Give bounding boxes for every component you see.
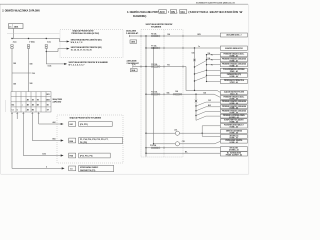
svg-text:ZAPALNICZKA (C5): ZAPALNICZKA (C5)	[227, 73, 242, 76]
svg-text:B/W: B/W	[198, 34, 202, 36]
switch A tap 2	[194, 73, 195, 74]
switch B tap 2	[195, 110, 196, 111]
svg-text:IG2: IG2	[12, 105, 15, 107]
svg-text:P1, P14, P16, P15, P12, P10, P: P1, P14, P16, P15, P12, P10, P7,	[80, 138, 109, 141]
wire to connector B04	[32, 140, 61, 142]
svg-text:2A04: 2A04	[14, 25, 19, 28]
row4 pin tick a	[163, 93, 165, 95]
second vertical bus	[153, 48, 155, 144]
svg-text:WIĄZKA PRZEWODÓW W KABINIE: WIĄZKA PRZEWODÓW W KABINIE	[70, 116, 102, 119]
svg-text:1C06: 1C06	[48, 66, 52, 68]
splice rail A	[206, 55, 208, 82]
node row2	[145, 47, 146, 48]
svg-text:10, 14, 15, 17, 19, 18, 20: 10, 14, 15, 17, 19, 18, 20	[71, 49, 92, 52]
svg-text:2. OBWÓD WŁĄCZNIKA ZAPŁONU: 2. OBWÓD WŁĄCZNIKA ZAPŁONU	[2, 9, 40, 12]
node row8	[145, 153, 146, 154]
svg-text:A04: A04	[53, 121, 56, 124]
faint scan line	[7, 33, 60, 35]
row2 pin tick b	[182, 47, 184, 49]
switch A branch 3	[195, 77, 207, 82]
row8 wire	[146, 148, 220, 153]
page edge bottom	[1, 173, 249, 175]
wire to glow controller	[12, 167, 62, 169]
wire col3 to arrow cab fusebox	[46, 63, 64, 65]
svg-text:C05: C05	[182, 141, 185, 143]
svg-text:ZEGAR (C3): ZEGAR (C3)	[229, 134, 238, 137]
arrow to fusebox B2	[67, 48, 70, 50]
svg-text:SKRZYNKA BEZPIECZNIKÓW (B1): SKRZYNKA BEZPIECZNIKÓW (B1)	[71, 38, 102, 41]
load box 4	[220, 58, 247, 62]
destination list 1	[79, 122, 113, 127]
load box 2	[220, 46, 247, 50]
svg-text:(SKRZYNKA BEZPIECZNIKÓW W: (SKRZYNKA BEZPIECZNIKÓW W	[188, 9, 242, 14]
node bus col2	[28, 38, 29, 39]
svg-text:15A: 15A	[167, 33, 171, 36]
svg-text:1B: 1B	[32, 99, 35, 101]
svg-text:PRZEDNIE GNIAZDO ZASILANIA: PRZEDNIE GNIAZDO ZASILANIA	[222, 109, 247, 112]
svg-text:PRZEDZIAŁU SILNIKA (W P4V): PRZEDZIAŁU SILNIKA (W P4V)	[72, 32, 100, 35]
svg-text:x: x	[22, 105, 23, 107]
glow plug controller box	[79, 165, 114, 171]
svg-text:Z AKUMULAT.: Z AKUMULAT.	[126, 32, 139, 35]
svg-text:B04: B04	[70, 140, 74, 143]
battery ref box 1A04 b	[130, 69, 137, 72]
svg-text:1A04: 1A04	[131, 41, 135, 44]
wire feed box to bus	[13, 29, 15, 39]
svg-text:1C06: 1C06	[42, 154, 46, 156]
bus wire with corner to arrow B1	[12, 39, 67, 42]
row6 lamp wire left	[154, 143, 176, 145]
lamp C05	[175, 142, 179, 146]
svg-text:B1: B1	[47, 105, 49, 107]
svg-text:4: 4	[46, 165, 47, 168]
fusebox internal dashed divider	[163, 30, 165, 157]
svg-text:ŻAROWYCH (P3): ŻAROWYCH (P3)	[80, 169, 96, 172]
load box 11	[220, 100, 247, 104]
row7 pin tick	[163, 147, 165, 149]
rail rung b3	[207, 54, 221, 56]
rail rung b6	[207, 69, 221, 71]
svg-text:L05: L05	[174, 129, 177, 131]
switch A tap 1	[194, 66, 195, 67]
svg-text:PRZEDNIE GNIAZDO ZASILANIA: PRZEDNIE GNIAZDO ZASILANIA	[222, 100, 247, 103]
splice mark 1	[211, 54, 212, 55]
svg-text:(DLC) - 16: (DLC) - 16	[230, 93, 237, 95]
load box 8	[220, 79, 247, 83]
switch B tap 3	[195, 115, 196, 116]
switch B contact X	[195, 100, 197, 102]
svg-text:C06: C06	[32, 73, 35, 75]
svg-text:1A04: 1A04	[131, 69, 135, 72]
switch A tap 3	[194, 80, 195, 81]
svg-text:ZŁĄCZE DIAGNOSTYCZNE: ZŁĄCZE DIAGNOSTYCZNE	[224, 90, 244, 93]
connector C1	[69, 166, 76, 171]
wire to connector R04	[23, 155, 61, 157]
svg-text:ST: ST	[47, 110, 49, 112]
svg-text:4 (a): 4 (a)	[13, 40, 17, 43]
rail rung b5	[207, 64, 221, 66]
svg-text:ZAPŁONU: ZAPŁONU	[53, 100, 62, 103]
switch A column	[194, 48, 196, 90]
load box 13	[220, 110, 247, 114]
switch B branch 3	[196, 111, 220, 115]
rail rung b7	[207, 74, 221, 76]
node row3	[145, 66, 146, 67]
drop connector ticks	[11, 113, 40, 115]
svg-text:2B: 2B	[27, 110, 30, 112]
node switch A bottom	[194, 90, 195, 91]
svg-text:W KABINIE: W KABINIE	[151, 25, 162, 28]
svg-text:(P6, P11): (P6, P11)	[80, 124, 88, 126]
svg-text:PRZEDNIE GNIAZDO ZASILANIA: PRZEDNIE GNIAZDO ZASILANIA	[222, 58, 247, 61]
node bus col1	[11, 38, 12, 39]
load box 15	[220, 119, 247, 123]
table cell labels	[12, 94, 50, 111]
row2 wire	[146, 47, 220, 49]
lamp row wire right	[180, 132, 221, 134]
row1 pin tick 0	[140, 35, 142, 37]
load box 3	[220, 53, 247, 57]
load box 16	[220, 124, 247, 129]
header rule	[0, 3, 248, 5]
connector col2	[27, 45, 29, 47]
svg-text:3B: 3B	[32, 105, 35, 107]
wire col3 to arrow B2	[46, 49, 66, 52]
ignition switch table	[11, 92, 51, 112]
svg-text:W 1, 2, 3, 4, 5, 6, 7: W 1, 2, 3, 4, 5, 6, 7	[69, 64, 85, 67]
row4 wire	[146, 94, 220, 97]
arrow to fusebox B1	[67, 41, 70, 43]
svg-text:7B: 7B	[37, 99, 40, 101]
load box 6	[220, 68, 247, 72]
svg-text:5B: 5B	[37, 105, 40, 107]
destination list 2	[79, 137, 123, 143]
wire col3 down	[45, 48, 47, 64]
row3 pin tick a	[163, 65, 165, 67]
svg-text:GNIAZDO ZAPALNICZKI: GNIAZDO ZAPALNICZKI	[225, 47, 243, 50]
rail rung b8	[207, 81, 221, 83]
svg-text:SCHEMATY ELEKTRYCZNE (4WD) 04–: SCHEMATY ELEKTRYCZNE (4WD) 04–09	[196, 2, 236, 5]
node switch B top	[195, 94, 196, 95]
svg-text:BL. SILNIKA (ECM): BL. SILNIKA (ECM)	[227, 151, 241, 154]
connector G01	[69, 122, 76, 127]
svg-text:SKRZYNKA BEZPIECZNIKÓW (B2): SKRZYNKA BEZPIECZNIKÓW (B2)	[71, 46, 102, 49]
load box 19	[220, 139, 247, 143]
connector col1	[11, 45, 13, 47]
switch A branch 2	[195, 70, 207, 74]
node battery bus	[145, 35, 146, 36]
svg-text:NR GŁOŚN.: NR GŁOŚN.	[230, 147, 239, 150]
row7 fuse wire	[146, 147, 220, 149]
svg-text:15A: 15A	[208, 52, 212, 55]
svg-text:R04: R04	[70, 155, 74, 158]
switch A contact X	[193, 59, 195, 61]
load box 14	[220, 114, 247, 118]
svg-text:SKRZYNKA BEZPIECZNIKÓW B W KAB: SKRZYNKA BEZPIECZNIKÓW B W KABINIE	[69, 61, 109, 64]
battery 2 connector tick	[132, 65, 134, 67]
switch B tap 1	[195, 105, 196, 106]
svg-text:B05: B05	[208, 105, 211, 107]
load box 12	[220, 105, 247, 109]
svg-text:ON: ON	[171, 11, 175, 14]
branch down to clock box	[202, 133, 220, 136]
load box 20	[220, 147, 247, 152]
ignition feed box 2A04	[9, 24, 24, 29]
lamp L05	[175, 131, 179, 135]
load box 21	[220, 152, 247, 157]
load box 7	[220, 73, 247, 77]
arrow to cab fusebox	[64, 63, 67, 65]
cab harness dashed box	[57, 115, 123, 163]
fuse F13 row4b	[173, 93, 182, 95]
svg-text:ZASILANIE (C5M) - 2: ZASILANIE (C5M) - 2	[226, 34, 241, 37]
svg-text:I: I	[168, 11, 169, 14]
wire col1 down	[11, 48, 13, 91]
svg-text:AM1: AM1	[46, 98, 49, 101]
row6 lamp wire right	[180, 141, 221, 144]
fuse F12 row4	[151, 93, 160, 95]
switch B branch 2	[196, 107, 220, 111]
node lamp row	[145, 133, 146, 134]
engine harness dashed box	[60, 30, 123, 58]
rail rung b4	[207, 59, 221, 61]
switch A branch 1	[195, 61, 207, 68]
svg-text:C05: C05	[208, 100, 211, 102]
svg-text:OBWÓD ŁADOWANIA: OBWÓD ŁADOWANIA	[226, 129, 243, 132]
load box 5	[220, 63, 247, 67]
switch B bottom branch	[196, 116, 220, 120]
fuse F16 row7	[151, 147, 160, 149]
svg-text:G01: G01	[70, 124, 74, 126]
svg-text:B01: B01	[47, 94, 50, 96]
svg-text:16A: 16A	[167, 91, 171, 94]
svg-text:16B: 16B	[30, 83, 34, 85]
row3 wire to gauge box	[133, 67, 221, 93]
node lamp branch	[202, 133, 203, 134]
svg-text:C05: C05	[192, 53, 195, 55]
battery feed wire	[129, 35, 220, 37]
load box 17	[220, 130, 247, 134]
svg-text:6: 6	[17, 110, 18, 112]
node row7	[145, 147, 146, 148]
connector B04	[69, 138, 76, 143]
svg-text:F7 15A: F7 15A	[151, 44, 157, 47]
load box 18	[220, 135, 247, 139]
svg-text:4B: 4B	[27, 98, 30, 101]
svg-text:16B: 16B	[13, 63, 17, 65]
fuse F10 row3	[151, 66, 160, 68]
destination list 3	[79, 153, 111, 158]
page edge left	[0, 4, 2, 174]
splice mark 3	[211, 64, 212, 65]
row1 pin tick b	[182, 35, 184, 37]
load box 1	[220, 33, 247, 37]
svg-text:P4, (P8): P4, (P8)	[80, 141, 87, 144]
svg-text:F12 10A: F12 10A	[151, 91, 158, 94]
svg-text:G (b): G (b)	[132, 64, 136, 66]
load box 10	[220, 96, 247, 100]
svg-text:PRZEDNIE GNIAZDO ZASILANIA: PRZEDNIE GNIAZDO ZASILANIA	[222, 63, 247, 66]
page edge right	[248, 4, 250, 174]
switch B column	[195, 94, 197, 120]
svg-text:B/L: B/L	[185, 151, 188, 153]
svg-text:8B: 8B	[32, 110, 35, 112]
wire to connector G01	[39, 123, 61, 125]
svg-text:1n: 1n	[198, 46, 200, 48]
node row4	[145, 94, 146, 95]
svg-text:PRZEDNIE GNIAZDO ZASIL.: PRZEDNIE GNIAZDO ZASIL.	[224, 53, 245, 56]
main vertical bus	[145, 36, 147, 157]
row3 pin tick b	[182, 65, 184, 67]
svg-text:(P13, P15, P9): (P13, P15, P9)	[80, 156, 93, 158]
svg-text:ACC: ACC	[160, 11, 166, 14]
svg-text:W 4, 5, 6, 7, 8: W 4, 5, 6, 7, 8	[71, 41, 83, 44]
node bus col3	[46, 38, 47, 39]
svg-text:PRZEDNIE GNIAZDO ZASIL.: PRZEDNIE GNIAZDO ZASIL.	[224, 95, 245, 98]
fuse F6 row1	[151, 35, 160, 37]
svg-text:F6 10A: F6 10A	[151, 32, 157, 35]
battery connector tick	[128, 35, 130, 37]
table drop wires	[12, 112, 39, 168]
svg-text:PODŚWIETLENIE TABLICY: PODŚWIETLENIE TABLICY	[224, 123, 244, 126]
node row6	[153, 143, 154, 144]
branch up to dimmer box	[202, 126, 220, 133]
svg-text:10A: 10A	[208, 57, 212, 60]
svg-text:PRZEDNIA WYCIERACZKA: PRZEDNIA WYCIERACZKA	[224, 79, 245, 82]
node col3 branch	[46, 51, 47, 52]
svg-text:PRZEDNIE GNIAZDO ZASILANIA: PRZEDNIE GNIAZDO ZASILANIA	[222, 105, 247, 108]
connector R04	[69, 153, 76, 158]
lamp row wire left	[146, 132, 175, 134]
svg-text:16B: 16B	[13, 84, 17, 86]
svg-text:B04: B04	[53, 138, 56, 141]
load box 9	[220, 91, 247, 95]
svg-text:KABINIE): KABINIE)	[133, 14, 146, 18]
svg-text:16B: 16B	[30, 64, 34, 66]
svg-text:10A: 10A	[175, 90, 179, 93]
row1 pin tick a	[163, 35, 165, 37]
svg-text:2 W(b): 2 W(b)	[29, 41, 35, 43]
svg-text:PRZEDNIE LUSTERKA ZEWN.: PRZEDNIE LUSTERKA ZEWN.	[223, 114, 246, 117]
svg-text:STEROWNIK ŚWIEC: STEROWNIK ŚWIEC	[80, 166, 99, 169]
connector col3	[45, 45, 47, 47]
svg-text:KOMPUTER POKŁADOWY: KOMPUTER POKŁADOWY	[224, 119, 244, 122]
wire col2 down	[28, 48, 30, 91]
node switch A top	[194, 47, 195, 48]
switch B branch 1	[196, 102, 220, 106]
row3 pin tick 0	[140, 65, 142, 67]
splice mark 2	[211, 59, 212, 60]
fuse F7 row2	[151, 47, 160, 49]
svg-text:F10 10A: F10 10A	[151, 63, 158, 66]
svg-text:C1: C1	[12, 110, 14, 112]
crossbar wire col1-col2	[12, 72, 32, 74]
svg-text:x: x	[27, 105, 28, 107]
svg-text:C1: C1	[70, 169, 72, 171]
cab fusebox dashed box	[141, 30, 183, 157]
svg-text:2n: 2n	[9, 26, 12, 28]
svg-text:,: ,	[177, 11, 178, 14]
svg-text:10A: 10A	[180, 11, 185, 14]
svg-text:PRZEKAźNIK ŚWIATEŁ: PRZEKAźNIK ŚWIATEŁ	[225, 139, 242, 142]
row2 pin tick a	[163, 47, 165, 49]
node second bus top	[153, 47, 154, 48]
battery ref box 1A04	[130, 40, 137, 43]
left margin smudge	[5, 100, 7, 112]
svg-text:3 (b): 3 (b)	[47, 41, 51, 43]
svg-text:PODGRZEWANIE LUSTEREK: PODGRZEWANIE LUSTEREK	[223, 68, 245, 71]
